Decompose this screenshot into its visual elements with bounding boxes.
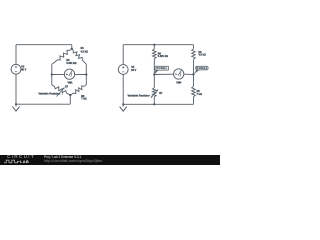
node: right branch mid junction bbox=[192, 73, 194, 75]
voltage source V3 bbox=[11, 64, 21, 74]
footer text bbox=[44, 155, 81, 159]
resistor R6 (right circuit), 5.281 k bbox=[153, 49, 157, 59]
wire: right circuit source bottom bbox=[122, 74, 124, 104]
resistor R7 bottom-left bridge arm (variable) bbox=[52, 85, 71, 95]
wire: left branch bottom stub bbox=[153, 97, 155, 104]
node: bridge left tap bbox=[51, 73, 53, 75]
wire: right circuit bottom rail bbox=[123, 103, 193, 105]
svg-text:7 kΩ: 7 kΩ bbox=[81, 98, 86, 101]
svg-text:NODE1: NODE1 bbox=[156, 66, 167, 70]
resistor R7 (right circuit, variable) bbox=[153, 75, 155, 88]
wire: right branch bottom stub bbox=[193, 97, 195, 105]
wire: left branch mid bbox=[153, 59, 155, 75]
wire: meter to right branch bbox=[184, 73, 194, 75]
footer bar bbox=[0, 155, 220, 166]
ammeter VM4 bbox=[174, 69, 184, 79]
resistor R8 (right circuit), 7 k bbox=[193, 74, 195, 86]
wire: left circuit left rail bottom bbox=[15, 74, 17, 104]
wire: right branch top stub bbox=[193, 45, 195, 49]
resistor R5 top-right bridge arm, 4.3 k bbox=[72, 49, 87, 65]
node: left branch mid junction bbox=[153, 73, 155, 75]
wire: bottom vertex stub bbox=[69, 95, 71, 104]
svg-text:VM4: VM4 bbox=[176, 82, 182, 85]
svg-text:R7: R7 bbox=[65, 85, 69, 88]
node: top rail tap bbox=[153, 44, 155, 46]
node: bridge bottom vertex bbox=[69, 94, 71, 96]
svg-text:5.281 kΩ: 5.281 kΩ bbox=[66, 62, 76, 65]
svg-text:NODE2: NODE2 bbox=[196, 66, 207, 70]
svg-text:R7: R7 bbox=[159, 92, 163, 95]
CircuitLab logo bbox=[7, 155, 35, 160]
svg-text:50 V: 50 V bbox=[131, 69, 136, 72]
wire: right circuit source top bbox=[122, 45, 124, 65]
node label NODE2 bbox=[194, 70, 200, 75]
node: bottom-left junction bbox=[15, 103, 17, 105]
wire: left circuit top rail bbox=[16, 44, 72, 46]
wire: right circuit top rail bbox=[123, 44, 193, 46]
node: bridge right tap bbox=[85, 73, 87, 75]
voltage source V5 bbox=[118, 65, 128, 75]
wire: bridge left vertical segment bbox=[51, 64, 53, 85]
svg-text:4.3 kΩ: 4.3 kΩ bbox=[198, 54, 205, 57]
wire: right branch mid bbox=[193, 59, 195, 74]
wire: top vertex stub bbox=[71, 45, 73, 49]
wire: left branch top stub bbox=[153, 45, 155, 49]
ground (right circuit) bbox=[120, 107, 127, 112]
resistor R6 top-left bridge arm bbox=[52, 49, 72, 65]
resistor R8 bottom-right bridge arm, 7 k bbox=[70, 85, 86, 95]
svg-text:7 kΩ: 7 kΩ bbox=[197, 93, 202, 96]
wire: left tap to meter bbox=[52, 73, 65, 75]
svg-text:VM1: VM1 bbox=[67, 81, 73, 84]
svg-text:50 V: 50 V bbox=[21, 68, 26, 71]
wire: ground stub bbox=[15, 104, 17, 106]
ground (left circuit) bbox=[12, 107, 19, 112]
svg-text:5.281 kΩ: 5.281 kΩ bbox=[158, 55, 168, 58]
node: bottom rail junctions bbox=[122, 103, 124, 105]
node label NODE1 bbox=[154, 70, 158, 74]
svg-text:Variable Resistor →: Variable Resistor → bbox=[127, 93, 153, 97]
wire: junction to meter bbox=[154, 73, 173, 75]
wire: bridge right vertical segment bbox=[85, 64, 87, 85]
wire: ground stub (right) bbox=[122, 104, 124, 106]
resistor R5 (right circuit), 4.3 k bbox=[192, 49, 196, 59]
ammeter VM1 bbox=[64, 69, 74, 79]
svg-text:Variable Resistor →: Variable Resistor → bbox=[38, 92, 64, 96]
wire: meter to right tap bbox=[75, 73, 87, 75]
node: bridge top vertex bbox=[71, 48, 73, 50]
wire: left circuit bottom rail bbox=[16, 103, 70, 105]
wire: left circuit left rail top bbox=[15, 45, 17, 65]
svg-text:4.3 kΩ: 4.3 kΩ bbox=[81, 50, 88, 53]
